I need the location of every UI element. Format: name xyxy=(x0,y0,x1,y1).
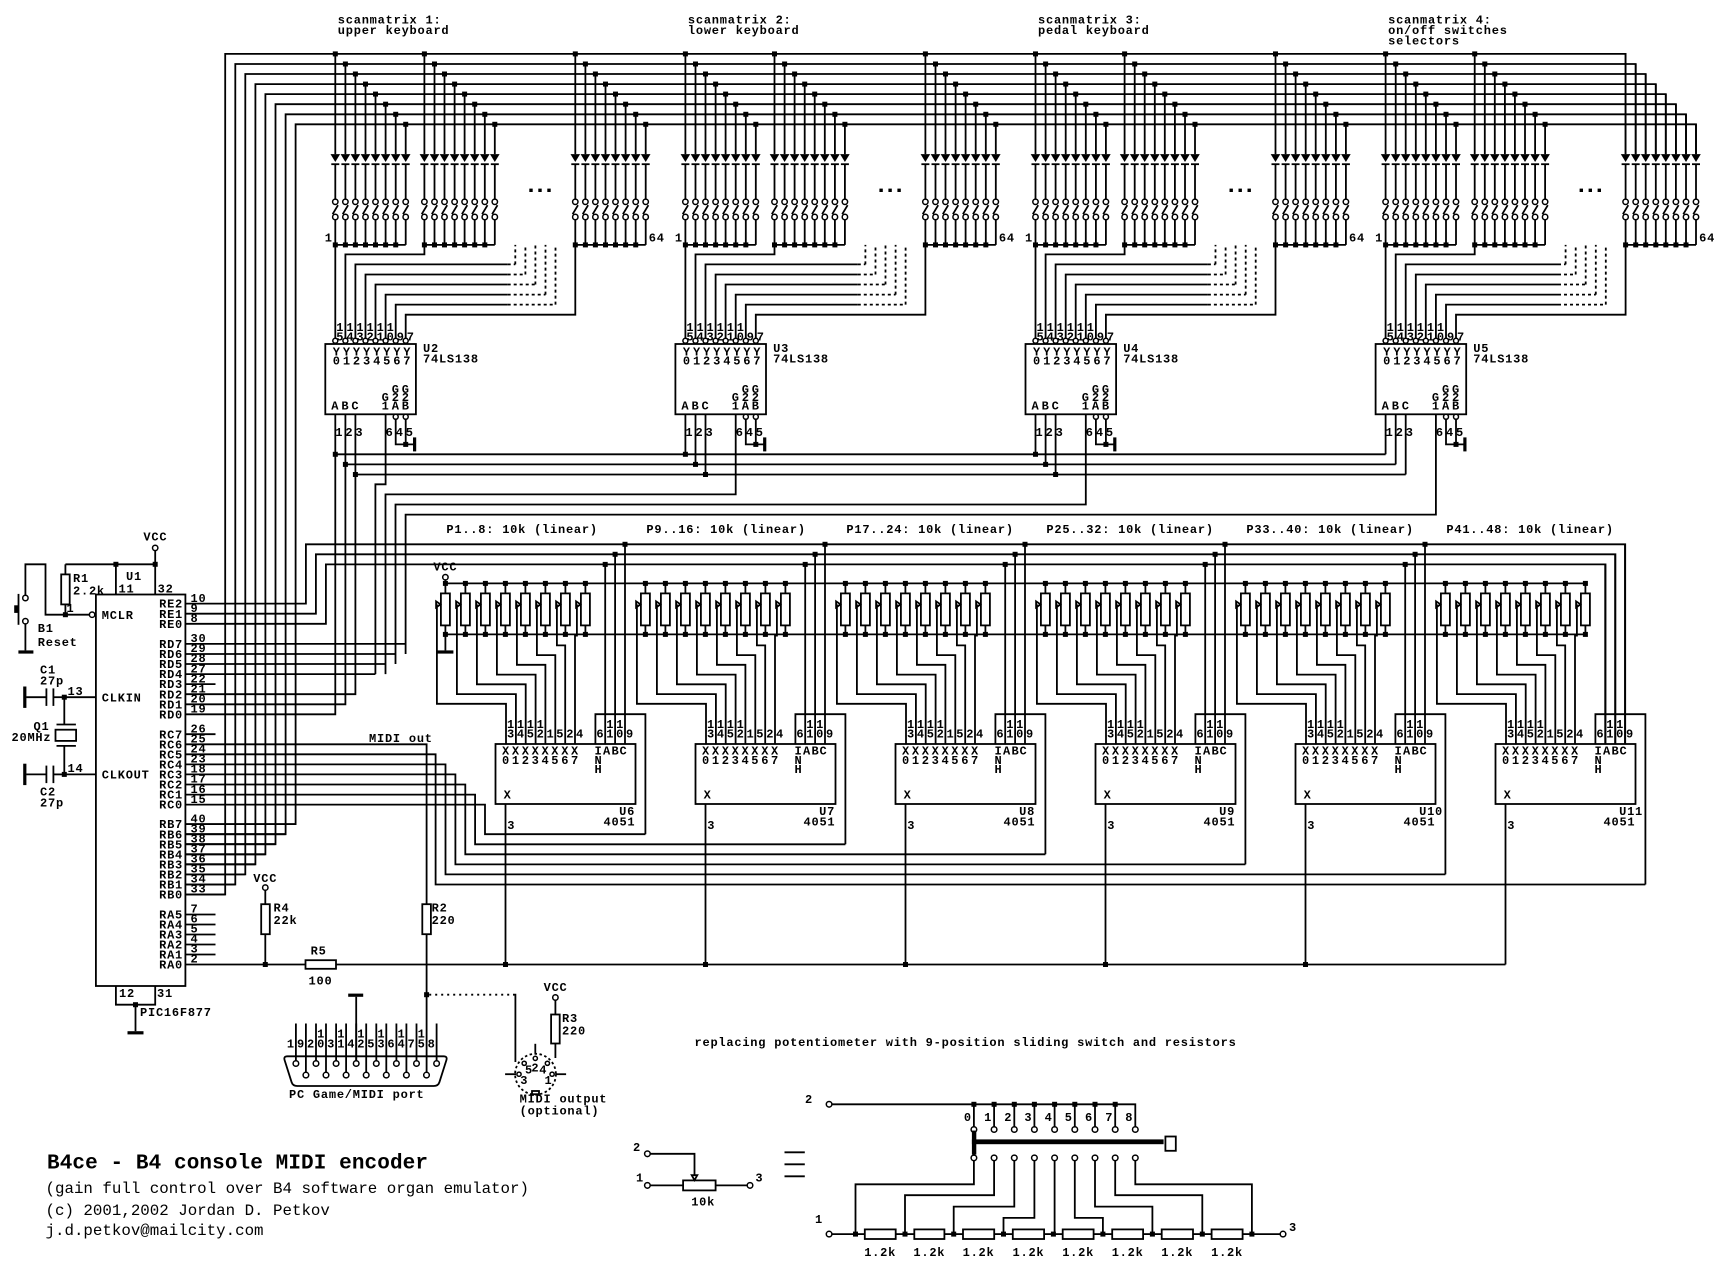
wire RA1 stub (unused) xyxy=(185,954,215,956)
svg-text:7: 7 xyxy=(771,754,779,768)
svg-text:C: C xyxy=(1052,400,1060,414)
wire P33 wiper to U10 X0 xyxy=(1237,604,1306,744)
wire P9 wiper to U7 X0 xyxy=(637,604,706,744)
label U1 RC1 pin 16 xyxy=(159,783,206,803)
key column sm1 g2 c8: diode + switch xyxy=(490,122,500,245)
svg-text:A: A xyxy=(1203,745,1211,759)
wire U4 pin C xyxy=(1055,414,1057,474)
power VCC to U1 pins 11 and 32 xyxy=(65,562,157,595)
svg-text:1: 1 xyxy=(335,426,343,440)
wire P34 wiper to U10 X1 xyxy=(1257,604,1316,744)
wire U11 pin B xyxy=(1614,554,1616,744)
wire U8 X output pin 3 xyxy=(903,804,908,967)
wire U8 INH pin 6 xyxy=(995,714,1045,854)
wire RB5 to row bus xyxy=(185,843,275,845)
wire P36 wiper to U10 X3 xyxy=(1297,604,1336,744)
resistor chain R6 1.2k xyxy=(1112,1229,1144,1260)
label U4 pins 6 4 5 xyxy=(1086,426,1114,440)
svg-text:3: 3 xyxy=(1307,728,1315,742)
connector J1 pin 15 xyxy=(418,1028,430,1078)
key column sm2 g2 c1: diode + switch xyxy=(770,51,780,247)
svg-text:B: B xyxy=(1612,745,1620,759)
svg-text:7: 7 xyxy=(1371,754,1379,768)
svg-text:20MHz: 20MHz xyxy=(12,731,52,745)
wire sm2 Y4 net (to hidden group) xyxy=(726,245,886,338)
key column sm2 g1 c4: diode + switch xyxy=(711,82,721,248)
slider bottom contact 2 xyxy=(954,1155,1017,1234)
power VCC symbol U1 xyxy=(143,530,167,564)
wire row-bus RB7 (net row7) xyxy=(185,124,1696,824)
wire U3 pin B xyxy=(695,414,697,464)
svg-text:A: A xyxy=(392,400,400,414)
wire RE0 to 4051 A-select line xyxy=(185,564,1605,744)
wire resistor chain xyxy=(832,1232,1280,1237)
wire P22 wiper to U8 X5 xyxy=(937,604,955,744)
svg-text:2: 2 xyxy=(1396,426,1404,440)
svg-text:3: 3 xyxy=(363,355,371,369)
label scanmatrix 4 title xyxy=(1388,13,1508,48)
svg-text:B: B xyxy=(752,400,760,414)
svg-text:12: 12 xyxy=(119,987,135,1001)
svg-text:3: 3 xyxy=(507,728,515,742)
label U8 refdes xyxy=(907,805,1035,833)
wire sm1 Y0 net xyxy=(334,245,336,338)
wire RC2 to U8 INH xyxy=(185,785,1045,855)
svg-text:4: 4 xyxy=(1317,728,1325,742)
svg-text:1.2k: 1.2k xyxy=(1211,1246,1243,1260)
svg-text:RB0: RB0 xyxy=(159,889,183,903)
svg-text:5: 5 xyxy=(1083,355,1091,369)
connector J1 pin 7 xyxy=(408,1024,420,1067)
equivalence sign xyxy=(785,1152,805,1176)
svg-text:2: 2 xyxy=(722,754,730,768)
potentiometer P19 xyxy=(876,581,890,637)
potentiometer P26 xyxy=(1056,581,1070,637)
wire row-bus RB2 (net row2) xyxy=(185,74,1645,874)
wire rail sm2 g2 xyxy=(775,244,845,246)
wire U10 pin C xyxy=(1423,542,1428,744)
ellipsis sm4 xyxy=(1580,189,1601,192)
svg-text:0: 0 xyxy=(333,355,341,369)
svg-text:3: 3 xyxy=(1507,819,1515,833)
svg-text:A: A xyxy=(742,400,750,414)
wire sm4 Y2 net (to hidden group) xyxy=(1406,245,1566,338)
wire U3 pin A xyxy=(684,414,686,454)
slider top contact 5 xyxy=(1065,1104,1078,1132)
slider top contact 4 xyxy=(1045,1104,1058,1132)
slider bottom contact 0 xyxy=(856,1155,977,1234)
svg-text:lower keyboard: lower keyboard xyxy=(688,24,800,38)
svg-text:2: 2 xyxy=(307,1037,315,1051)
potentiometer symbol (10k) xyxy=(683,1175,716,1209)
svg-text:1: 1 xyxy=(693,355,701,369)
potentiometer P34 xyxy=(1256,581,1270,637)
svg-text:0: 0 xyxy=(1502,754,1510,768)
key column sm1 g3 c4: diode + switch xyxy=(601,82,611,248)
svg-text:32: 32 xyxy=(158,583,174,597)
potentiometer symbol terminal 1 xyxy=(636,1172,683,1189)
wire P17 wiper to U8 X0 xyxy=(837,604,906,744)
potentiometer P25 xyxy=(1036,581,1050,637)
svg-text:0: 0 xyxy=(1216,728,1224,742)
ground U3 G2 enable xyxy=(763,437,766,451)
label U1 RB6 pin 39 xyxy=(159,822,206,842)
label scanmatrix 3 title xyxy=(1038,13,1150,38)
label U5 pins 1 2 3 xyxy=(1386,426,1414,440)
svg-text:5: 5 xyxy=(406,426,414,440)
svg-text:H: H xyxy=(595,763,603,777)
svg-text:3: 3 xyxy=(932,754,940,768)
svg-text:100: 100 xyxy=(309,975,333,989)
wire CLKOUT net xyxy=(62,772,96,777)
wire RC0 to U6 INH xyxy=(185,805,645,835)
wire rail sm2 g1 xyxy=(685,244,755,246)
svg-text:selectors: selectors xyxy=(1388,35,1460,49)
svg-text:1: 1 xyxy=(1547,728,1555,742)
wire P1 wiper to U6 X0 xyxy=(437,604,506,744)
svg-text:6: 6 xyxy=(1196,728,1204,742)
connector J1 pin 14 xyxy=(398,1024,410,1078)
svg-text:VCC: VCC xyxy=(433,560,457,574)
wire row-bus RB0 (net row0) xyxy=(185,54,1625,895)
svg-text:1: 1 xyxy=(712,754,720,768)
potentiometer P28 xyxy=(1096,581,1110,637)
svg-text:7: 7 xyxy=(407,331,415,345)
svg-text:2: 2 xyxy=(1566,728,1574,742)
slider top contact 7 xyxy=(1105,1104,1118,1132)
potentiometer P36 xyxy=(1296,581,1310,637)
resistor R5 100 xyxy=(306,945,337,989)
svg-text:MIDI out: MIDI out xyxy=(369,732,433,746)
wire RE2 to 4051 C-select line xyxy=(185,544,1625,744)
svg-text:pedal keyboard: pedal keyboard xyxy=(1038,24,1150,38)
wire MCLR net xyxy=(25,564,89,617)
wire P13 wiper to U7 X4 xyxy=(717,604,746,744)
wire rail sm4 g1 xyxy=(1386,244,1456,246)
svg-text:RA0: RA0 xyxy=(159,959,183,973)
potentiometer P24 xyxy=(976,581,990,637)
key column sm2 g1 c3: diode + switch xyxy=(701,72,711,248)
svg-text:8: 8 xyxy=(1125,1111,1133,1125)
key column sm3 g1 c1: diode + switch xyxy=(1031,51,1041,247)
key column sm1 g2 c6: diode + switch xyxy=(470,102,480,248)
wire RC4 to U10 INH xyxy=(185,764,1445,874)
svg-text:3: 3 xyxy=(520,1074,528,1088)
potentiometer P22 xyxy=(936,581,950,637)
wire MIDI branch to DIN pin 5 (dotted) xyxy=(429,995,515,1062)
label scanmatrix 2 title xyxy=(688,13,800,38)
wire U9 INH pin 6 xyxy=(1195,714,1245,864)
svg-text:2: 2 xyxy=(922,754,930,768)
svg-text:2: 2 xyxy=(805,1093,813,1107)
wire U7 X output pin 3 xyxy=(703,804,708,967)
slider resistor chain terminal 1 xyxy=(815,1213,832,1237)
wire RA2 stub (unused) xyxy=(185,944,215,946)
wire P32 wiper to U9 X7 xyxy=(1175,604,1177,744)
svg-text:4: 4 xyxy=(576,728,584,742)
wire row-bus RB5 (net row5) xyxy=(185,104,1676,844)
svg-text:1: 1 xyxy=(287,1037,295,1051)
wire P42 wiper to U11 X1 xyxy=(1457,604,1516,744)
wire U4 G1 from RD6 xyxy=(396,414,1086,664)
potentiometer P12 xyxy=(696,581,710,637)
resistor chain R2 1.2k xyxy=(913,1229,945,1260)
svg-text:4: 4 xyxy=(1176,728,1184,742)
connector J1 pin 13 xyxy=(377,1024,389,1078)
label U1 RD0 pin 19 xyxy=(159,703,206,723)
label U1 RD3 pin 22 xyxy=(159,672,206,692)
svg-text:0: 0 xyxy=(1383,355,1391,369)
svg-text:2: 2 xyxy=(357,1037,365,1051)
key column sm2 g2 c8: diode + switch xyxy=(840,122,850,245)
key column sm2 g1 c5: diode + switch xyxy=(721,92,731,248)
svg-text:4: 4 xyxy=(542,754,550,768)
svg-text:j.d.petkov@mailcity.com: j.d.petkov@mailcity.com xyxy=(46,1222,264,1240)
potentiometer P14 xyxy=(736,581,750,637)
wire P21 wiper to U8 X4 xyxy=(917,604,946,744)
slider top contact 8 xyxy=(1125,1111,1138,1132)
wire U6 pin B xyxy=(613,552,618,744)
wire sm1 Y6 net (to hidden group) xyxy=(396,245,556,338)
wire P15 wiper to U7 X6 xyxy=(757,604,765,744)
label U1 RA3 pin 5 xyxy=(159,923,198,943)
multiplexer U6 4051 xyxy=(496,718,636,804)
svg-text:5: 5 xyxy=(1106,426,1114,440)
label U9 refdes xyxy=(1107,805,1235,833)
svg-text:3: 3 xyxy=(532,754,540,768)
wire P27 wiper to U9 X2 xyxy=(1077,604,1126,744)
svg-text:2: 2 xyxy=(703,355,711,369)
svg-text:5: 5 xyxy=(751,754,759,768)
wire RA3 stub (unused) xyxy=(185,934,215,936)
svg-text:PIC16F877: PIC16F877 xyxy=(140,1006,212,1020)
label U1 RB2 pin 35 xyxy=(159,863,206,883)
ground U2 G2 enable xyxy=(413,437,416,451)
power VCC symbol R3 xyxy=(544,981,568,1000)
svg-text:5: 5 xyxy=(367,1037,375,1051)
wire row-bus RB3 (net row3) xyxy=(185,84,1655,864)
key column sm3 g1 c3: diode + switch xyxy=(1051,72,1061,248)
label U7 refdes xyxy=(707,805,835,833)
connector J2 MIDI output DIN-5 xyxy=(505,1044,566,1095)
wire RB2 to row bus xyxy=(185,873,245,875)
svg-text:7: 7 xyxy=(571,754,579,768)
svg-text:1: 1 xyxy=(606,728,614,742)
resistor R1 2.2k xyxy=(61,564,105,614)
svg-text:4: 4 xyxy=(1142,754,1150,768)
wire U3 pin C xyxy=(705,414,707,474)
svg-text:5: 5 xyxy=(551,754,559,768)
svg-text:9: 9 xyxy=(1626,728,1634,742)
label U1 RC0 pin 15 xyxy=(159,793,206,813)
key column sm2 g1 c1: diode + switch xyxy=(681,51,691,247)
potentiometer P44 xyxy=(1496,581,1510,637)
wire RB6 to row bus xyxy=(185,833,285,835)
key column sm3 g1 c2: diode + switch xyxy=(1041,62,1051,248)
decoder U4 74LS138 xyxy=(1026,321,1117,414)
svg-text:7: 7 xyxy=(1107,331,1115,345)
potentiometer P18 xyxy=(856,581,870,637)
svg-text:H: H xyxy=(1195,763,1203,777)
svg-text:5: 5 xyxy=(756,728,764,742)
svg-text:VCC: VCC xyxy=(253,872,277,886)
key column sm4 g3 c5: diode + switch xyxy=(1661,94,1671,247)
key column sm2 g3 c8: diode + switch xyxy=(991,122,1001,245)
wire sm4 Y0 net xyxy=(1385,245,1387,338)
potentiometer P40 xyxy=(1376,581,1390,637)
svg-text:0: 0 xyxy=(1302,754,1310,768)
svg-text:P9..16: 10k (linear): P9..16: 10k (linear) xyxy=(646,523,805,537)
potentiometer P27 xyxy=(1076,581,1090,637)
svg-text:6: 6 xyxy=(386,426,394,440)
svg-text:1: 1 xyxy=(382,400,390,414)
svg-text:6: 6 xyxy=(1161,754,1169,768)
ground C2 xyxy=(23,764,26,785)
svg-text:C: C xyxy=(351,400,359,414)
svg-text:X: X xyxy=(1504,789,1512,803)
svg-text:3: 3 xyxy=(706,426,714,440)
svg-text:5: 5 xyxy=(956,728,964,742)
connector J1 PC Game/MIDI port (DB15) xyxy=(284,1056,446,1086)
potentiometer P9 xyxy=(636,581,650,637)
wire U5 G2A G2B to ground xyxy=(1444,414,1465,447)
svg-text:A: A xyxy=(603,745,611,759)
svg-text:0: 0 xyxy=(616,728,624,742)
svg-text:4: 4 xyxy=(1117,728,1125,742)
key column sm4 g1 c5: diode + switch xyxy=(1421,92,1431,248)
wire rail sm1 g3 xyxy=(575,244,645,246)
svg-text:7: 7 xyxy=(757,331,765,345)
svg-text:2: 2 xyxy=(1337,728,1345,742)
svg-text:19: 19 xyxy=(191,703,207,717)
svg-text:4: 4 xyxy=(347,1037,355,1051)
wire U11 X output pin 3 xyxy=(1505,804,1507,965)
potentiometer P45 xyxy=(1516,581,1530,637)
svg-text:3: 3 xyxy=(327,1037,335,1051)
potentiometer P15 xyxy=(756,581,770,637)
svg-text:2: 2 xyxy=(633,1141,641,1155)
svg-text:2: 2 xyxy=(1046,426,1054,440)
wire P11 wiper to U7 X2 xyxy=(677,604,726,744)
label U5 pins 6 4 5 xyxy=(1436,426,1464,440)
svg-text:8: 8 xyxy=(428,1037,436,1051)
svg-text:10k: 10k xyxy=(691,1196,715,1210)
svg-text:4: 4 xyxy=(373,355,381,369)
svg-text:220: 220 xyxy=(562,1024,586,1038)
key column sm2 g1 c6: diode + switch xyxy=(731,102,741,248)
svg-text:5: 5 xyxy=(733,355,741,369)
wire sm2 Y3 net (to hidden group) xyxy=(716,245,876,338)
wire rail sm3 g3 xyxy=(1276,244,1346,246)
svg-text:B: B xyxy=(612,745,620,759)
svg-text:220: 220 xyxy=(432,914,456,928)
label U1 RB7 pin 40 xyxy=(159,812,206,832)
svg-text:1: 1 xyxy=(1112,754,1120,768)
svg-text:3: 3 xyxy=(707,728,715,742)
key column sm4 g3 c6: diode + switch xyxy=(1671,104,1681,247)
svg-text:0: 0 xyxy=(502,754,510,768)
label U10 refdes xyxy=(1307,805,1443,833)
svg-text:C: C xyxy=(1402,400,1410,414)
wire P41 wiper to U11 X0 xyxy=(1437,604,1506,744)
wire sm3 Y5 net (to hidden group) xyxy=(1086,245,1246,338)
svg-text:5: 5 xyxy=(1551,754,1559,768)
potentiometer P11 xyxy=(676,581,690,637)
svg-text:H: H xyxy=(795,763,803,777)
potentiometer P38 xyxy=(1336,581,1350,637)
svg-text:6: 6 xyxy=(761,754,769,768)
svg-text:0: 0 xyxy=(317,1037,325,1051)
wire U10 INH pin 6 xyxy=(1395,714,1445,874)
svg-text:2: 2 xyxy=(537,728,545,742)
svg-text:4: 4 xyxy=(942,754,950,768)
wire U2 G1 from RD4 xyxy=(375,414,385,674)
svg-text:B: B xyxy=(1042,400,1050,414)
label U1 RD6 pin 29 xyxy=(159,642,206,662)
svg-text:5: 5 xyxy=(1456,426,1464,440)
connector J1 pin 5 xyxy=(367,1024,379,1067)
wire rail sm1 g2 xyxy=(424,244,494,246)
svg-text:3: 3 xyxy=(1107,728,1115,742)
svg-text:6: 6 xyxy=(1361,754,1369,768)
key column sm4 g3 c7: diode + switch xyxy=(1681,114,1691,247)
key column sm3 g2 c8: diode + switch xyxy=(1190,122,1200,245)
wire sm2 Y6 net (to hidden group) xyxy=(746,245,906,338)
wire row-bus RB6 (net row6) xyxy=(185,114,1686,834)
svg-text:5: 5 xyxy=(1327,728,1335,742)
wire U10 pin B xyxy=(1413,552,1418,744)
svg-text:1: 1 xyxy=(732,400,740,414)
svg-text:1: 1 xyxy=(806,728,814,742)
svg-text:C: C xyxy=(1020,745,1028,759)
wire RB1 to row bus xyxy=(185,884,235,886)
resistor chain R3 1.2k xyxy=(963,1229,995,1260)
svg-text:1: 1 xyxy=(1375,232,1383,246)
pushbutton B1 Reset xyxy=(14,594,77,650)
key column sm1 g1 c1: diode + switch xyxy=(331,51,341,247)
svg-text:2: 2 xyxy=(531,1061,539,1075)
svg-text:3: 3 xyxy=(732,754,740,768)
svg-text:B: B xyxy=(1412,745,1420,759)
svg-text:64: 64 xyxy=(649,232,665,246)
svg-text:5: 5 xyxy=(1127,728,1135,742)
crystal Q1 20MHz xyxy=(12,697,77,774)
svg-text:1: 1 xyxy=(675,232,683,246)
wire P28 wiper to U9 X3 xyxy=(1097,604,1136,744)
key column sm3 g1 c8: diode + switch xyxy=(1101,122,1111,245)
svg-text:(gain full control over B4 sof: (gain full control over B4 software orga… xyxy=(46,1180,529,1198)
svg-text:6: 6 xyxy=(736,426,744,440)
svg-text:P17..24: 10k (linear): P17..24: 10k (linear) xyxy=(846,523,1013,537)
svg-text:5: 5 xyxy=(727,728,735,742)
svg-text:5: 5 xyxy=(1151,754,1159,768)
svg-text:3: 3 xyxy=(1406,426,1414,440)
key column sm3 g2 c5: diode + switch xyxy=(1160,92,1170,248)
decoder U3 74LS138 xyxy=(675,321,766,414)
svg-text:4: 4 xyxy=(1542,754,1550,768)
U1 MCLR inverted pin xyxy=(89,612,94,617)
svg-text:0: 0 xyxy=(816,728,824,742)
key column sm3 g1 c6: diode + switch xyxy=(1081,102,1091,248)
svg-text:B: B xyxy=(1012,745,1020,759)
potentiometer P46 xyxy=(1536,581,1550,637)
potentiometer P20 xyxy=(896,581,910,637)
svg-text:5: 5 xyxy=(1556,728,1564,742)
wire sm3 Y3 net (to hidden group) xyxy=(1066,245,1226,338)
wire sm1 Y4 net (to hidden group) xyxy=(376,245,536,338)
svg-text:7: 7 xyxy=(753,355,761,369)
wire P35 wiper to U10 X2 xyxy=(1277,604,1326,744)
